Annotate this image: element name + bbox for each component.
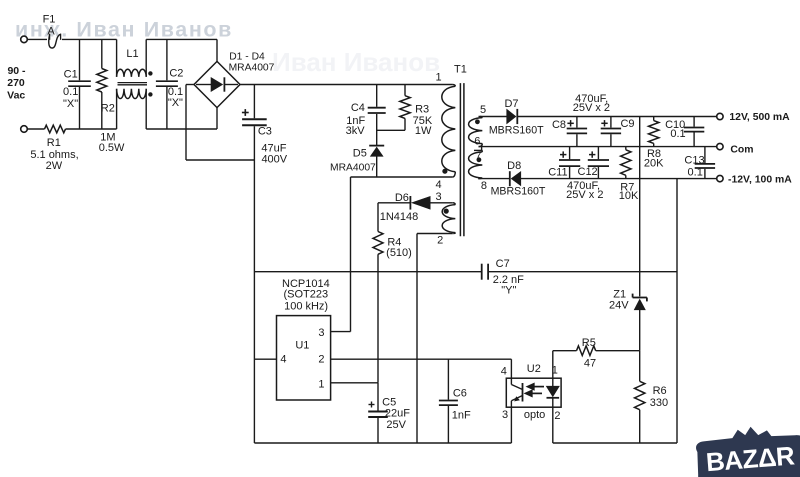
wire + rail	[240, 84, 453, 86]
capacitor C10	[684, 117, 704, 147]
wire pin1 rise	[552, 351, 554, 379]
resistor R4	[373, 203, 383, 383]
svg-text:R2: R2	[101, 103, 115, 115]
svg-text:10K: 10K	[619, 190, 639, 202]
label Com	[730, 144, 753, 155]
svg-text:22uF: 22uF	[385, 407, 410, 419]
svg-text:Z1: Z1	[613, 288, 626, 300]
svg-text:47: 47	[584, 358, 596, 370]
label D1 - D4	[229, 52, 265, 63]
svg-text:D8: D8	[507, 160, 521, 172]
label C2	[169, 67, 183, 79]
label C7	[496, 258, 510, 270]
plus sign C5	[369, 402, 375, 408]
label 470uF, 25V x 2 bottom	[566, 180, 603, 201]
wire	[553, 350, 577, 352]
svg-text:C9: C9	[620, 118, 634, 130]
label 0.1	[670, 128, 685, 140]
label L1	[126, 48, 138, 60]
opto arrows	[526, 384, 544, 396]
label -12V, 100 mA	[728, 174, 792, 185]
label C12	[578, 166, 598, 178]
svg-text:12V, 500 mA: 12V, 500 mA	[729, 112, 790, 123]
label opto	[524, 409, 545, 421]
label R4	[387, 237, 401, 249]
svg-text:20K: 20K	[644, 157, 664, 169]
label pin 3	[502, 409, 508, 421]
plus sign C9	[601, 120, 607, 126]
label pin 3	[435, 191, 441, 203]
label T1	[454, 64, 467, 76]
label C10	[665, 119, 685, 131]
wire	[596, 350, 640, 352]
capacitor C13	[695, 147, 715, 179]
label 470uF, 25V x 2 top	[573, 93, 610, 114]
label 3kV	[346, 125, 366, 137]
label 2.2 nF	[493, 274, 524, 286]
label pin 7	[475, 151, 481, 163]
label 0.1	[168, 86, 183, 98]
label "X"	[63, 98, 78, 110]
svg-text:MRA4007: MRA4007	[229, 63, 275, 74]
transformer T1 aux winding	[442, 203, 455, 234]
svg-text:3: 3	[435, 191, 441, 203]
svg-text:0.1: 0.1	[670, 128, 685, 140]
resistor R8	[649, 117, 659, 147]
svg-text:3: 3	[502, 409, 508, 421]
svg-text:Vac: Vac	[7, 90, 25, 102]
svg-text:2W: 2W	[46, 160, 63, 172]
diode D6	[378, 196, 453, 210]
wire	[146, 128, 217, 130]
svg-text:2: 2	[437, 235, 443, 247]
wire pin7 stub	[474, 147, 482, 151]
svg-text:1: 1	[435, 72, 441, 84]
wire	[146, 38, 217, 40]
svg-text:"X": "X"	[63, 98, 78, 110]
zener Z1	[633, 294, 647, 351]
wire bridge negative	[186, 85, 254, 161]
label R1	[47, 137, 61, 149]
watermark top	[15, 18, 233, 42]
svg-text:C1: C1	[64, 68, 78, 80]
label F1	[43, 14, 56, 26]
wire	[254, 271, 481, 273]
resistor R1	[45, 125, 66, 133]
label pin 4	[280, 354, 286, 366]
svg-text:C8: C8	[552, 119, 566, 131]
label pin 8	[481, 180, 487, 192]
wire bottom rail primary	[254, 442, 511, 444]
resistor R2	[97, 39, 107, 129]
label R8	[647, 148, 661, 160]
svg-text:F1: F1	[43, 14, 56, 26]
svg-text:2: 2	[318, 354, 324, 366]
wire pin1 stub	[331, 382, 378, 384]
label "Y"	[501, 285, 516, 297]
label pin 1	[318, 378, 324, 390]
diode D7	[507, 109, 518, 124]
inductor L1 bottom winding	[117, 89, 147, 129]
svg-text:8: 8	[481, 180, 487, 192]
capacitor C5	[368, 383, 388, 443]
label "X"	[168, 97, 183, 109]
plus sign C8	[567, 120, 573, 126]
svg-text:90 -: 90 -	[7, 65, 26, 77]
wire pin2 drop	[552, 407, 554, 443]
svg-text:MBRS160T: MBRS160T	[491, 185, 546, 197]
label 47uF	[261, 142, 286, 154]
terminal AC input bottom	[21, 126, 28, 133]
wire Com rail	[479, 146, 717, 148]
diode D8	[510, 171, 521, 186]
plus sign C3	[242, 109, 249, 116]
label 400V	[261, 153, 287, 165]
label R3	[415, 103, 429, 115]
label R6	[653, 385, 667, 397]
label pin 4	[435, 179, 441, 191]
label D7	[504, 98, 518, 110]
label U2	[527, 363, 541, 375]
phase dot L1 bottom	[148, 92, 152, 96]
wire	[66, 128, 117, 130]
svg-text:4: 4	[435, 179, 441, 191]
svg-text:C2: C2	[169, 67, 183, 79]
wire	[216, 108, 218, 129]
svg-text:0.5W: 0.5W	[99, 142, 125, 154]
svg-text:Com: Com	[730, 144, 753, 155]
wire	[417, 233, 453, 235]
label pin 3	[318, 327, 324, 339]
label pin 1	[552, 365, 558, 377]
label MBRS160T	[489, 125, 544, 137]
label C13	[684, 154, 704, 166]
svg-text:4: 4	[280, 354, 286, 366]
resistor R5	[577, 346, 596, 356]
label C4	[351, 102, 365, 114]
label 5.1 ohms,	[30, 149, 78, 161]
resistor R3	[400, 85, 410, 131]
label 1W	[415, 125, 432, 137]
phase dot secondary 5-6	[475, 119, 480, 124]
svg-text:C7: C7	[496, 258, 510, 270]
svg-text:Иван Иванов: Иван Иванов	[272, 47, 440, 77]
optocoupler U2 box	[506, 378, 561, 407]
capacitor C4	[368, 85, 386, 146]
wire right bus	[676, 179, 678, 443]
phase dot aux	[444, 209, 449, 214]
label MRA4007	[330, 162, 376, 173]
svg-text:24V: 24V	[609, 300, 629, 312]
label U1	[295, 339, 309, 351]
label pin 1	[435, 72, 441, 84]
svg-text:R1: R1	[47, 137, 61, 149]
svg-text:25V: 25V	[386, 419, 406, 431]
svg-text:4: 4	[501, 366, 507, 378]
svg-text:U1: U1	[295, 339, 309, 351]
diode D5	[369, 146, 384, 177]
wire +12V rail	[479, 116, 507, 118]
label (SOT223	[283, 288, 328, 300]
label pin 2	[554, 410, 560, 422]
wire bottom rail secondary	[553, 442, 677, 444]
wire Z1 drop	[639, 117, 641, 297]
capacitor C1	[68, 39, 91, 129]
wire pin3 stub	[331, 331, 351, 333]
svg-text:25V x 2: 25V x 2	[573, 102, 610, 114]
svg-text:0.1: 0.1	[688, 166, 703, 178]
svg-text:R6: R6	[653, 385, 667, 397]
label 1M	[100, 132, 115, 144]
inductor L1 core	[118, 83, 148, 85]
svg-text:MRA4007: MRA4007	[330, 162, 376, 173]
label Z1	[613, 288, 626, 300]
svg-text:D6: D6	[395, 192, 409, 204]
label pin 4	[501, 366, 507, 378]
svg-text:U2: U2	[527, 363, 541, 375]
svg-text:C6: C6	[453, 388, 467, 400]
label 10K	[619, 190, 639, 202]
logo BAZAR	[695, 422, 800, 477]
svg-text:3kV: 3kV	[346, 125, 366, 137]
svg-text:1N4148: 1N4148	[380, 211, 419, 223]
label pin 6	[474, 136, 480, 148]
svg-text:1W: 1W	[415, 125, 432, 137]
svg-text:MBRS160T: MBRS160T	[489, 125, 544, 137]
label MBRS160T	[491, 185, 546, 197]
transformer T1 core	[460, 83, 464, 236]
label 1nF	[346, 115, 365, 127]
svg-text:C11: C11	[548, 166, 567, 178]
transformer T1 secondary winding 7-8	[469, 150, 483, 178]
svg-text:0.1: 0.1	[63, 86, 78, 98]
label 2W	[46, 160, 63, 172]
label A	[47, 25, 55, 37]
plus sign C12	[589, 151, 595, 157]
wire left bus	[253, 160, 255, 443]
label 20K	[644, 157, 664, 169]
wire	[351, 176, 453, 178]
svg-text:R5: R5	[582, 337, 596, 349]
svg-text:400V: 400V	[261, 153, 287, 165]
svg-text:5: 5	[480, 104, 486, 116]
capacitor C3	[242, 85, 267, 161]
label 24V	[609, 300, 629, 312]
wire pin3 drop	[510, 407, 512, 443]
wire	[27, 38, 47, 40]
opto phototransistor	[511, 378, 522, 407]
label D8	[507, 160, 521, 172]
label MRA4007	[229, 63, 275, 74]
svg-text:100 kHz): 100 kHz)	[284, 300, 328, 312]
wire	[488, 271, 677, 273]
capacitor C11	[559, 147, 580, 179]
label R2	[101, 103, 115, 115]
svg-text:-12V, 100 mA: -12V, 100 mA	[728, 174, 792, 185]
bridge rectifier D1-D4	[194, 61, 240, 107]
label D5	[353, 147, 367, 159]
label R5	[582, 337, 596, 349]
transformer T1 primary winding	[442, 85, 456, 178]
svg-text:D5: D5	[353, 147, 367, 159]
IC U1 NCP1014	[277, 316, 331, 400]
wire	[377, 129, 405, 131]
label (510)	[386, 247, 412, 259]
wire -12V rail	[478, 178, 510, 180]
label pin 2	[437, 235, 443, 247]
phase dot primary	[442, 169, 447, 174]
label 330	[650, 397, 668, 409]
wire drain	[350, 177, 352, 332]
capacitor C8	[567, 117, 587, 147]
label 100 kHz)	[284, 300, 328, 312]
wire	[27, 128, 44, 130]
svg-text:1nF: 1nF	[452, 410, 471, 422]
label C1	[64, 68, 78, 80]
label 25V	[386, 419, 406, 431]
label C9	[620, 118, 634, 130]
svg-text:C3: C3	[258, 126, 272, 138]
resistor R7	[621, 147, 631, 179]
inductor L1 top winding	[117, 39, 147, 76]
svg-text:"X": "X"	[168, 97, 183, 109]
label C11	[548, 166, 567, 178]
wire	[639, 351, 641, 382]
svg-text:C12: C12	[578, 166, 598, 178]
svg-text:C13: C13	[684, 154, 704, 166]
terminal -12V	[717, 175, 723, 181]
capacitor C9	[601, 117, 621, 147]
svg-text:opto: opto	[524, 409, 545, 421]
svg-text:R3: R3	[415, 103, 429, 115]
label pin 2	[318, 354, 324, 366]
wire	[216, 39, 218, 61]
wire	[62, 38, 117, 40]
svg-text:(SOT223: (SOT223	[283, 288, 328, 300]
label 0.5W	[99, 142, 125, 154]
svg-text:1: 1	[318, 378, 324, 390]
label 0.1	[63, 86, 78, 98]
wire pin4 stub	[254, 358, 276, 360]
label 22uF	[385, 407, 410, 419]
capacitor C6	[439, 359, 458, 443]
capacitor C2	[156, 39, 178, 129]
svg-text:D1 - D4: D1 - D4	[229, 52, 265, 63]
svg-text:330: 330	[650, 397, 668, 409]
resistor R6	[635, 381, 645, 443]
terminal AC input top	[21, 36, 28, 43]
svg-text:270: 270	[7, 77, 25, 89]
label 1nF	[452, 410, 471, 422]
terminal Com	[717, 143, 723, 149]
label 12V, 500 mA	[729, 112, 790, 123]
capacitor C7	[482, 264, 488, 280]
terminal 12V	[717, 113, 723, 119]
label 47	[584, 358, 596, 370]
label C5	[382, 396, 396, 408]
label C8	[552, 119, 566, 131]
svg-text:A: A	[47, 25, 55, 37]
label NCP1014	[282, 278, 330, 290]
wire -12V rail	[521, 178, 717, 180]
svg-text:(510): (510)	[386, 247, 412, 259]
label pin 5	[480, 104, 486, 116]
wire aux return	[416, 234, 418, 444]
label C3	[258, 126, 272, 138]
transformer T1 secondary winding 5-6	[469, 117, 483, 147]
wire pin4 drop	[510, 359, 512, 378]
watermark faint	[272, 47, 440, 77]
svg-text:"Y": "Y"	[501, 285, 516, 297]
opto LED	[546, 378, 559, 407]
wire FB line	[331, 358, 512, 360]
svg-text:3: 3	[318, 327, 324, 339]
svg-text:25V x 2: 25V x 2	[566, 189, 603, 201]
svg-text:D7: D7	[504, 98, 518, 110]
svg-text:2: 2	[554, 410, 560, 422]
label C6	[453, 388, 467, 400]
svg-text:6: 6	[474, 136, 480, 148]
label 90-270 Vac	[7, 65, 26, 101]
phase dot secondary 7-8	[477, 157, 482, 162]
label 75K	[413, 115, 433, 127]
label R7	[620, 181, 634, 193]
wire +12V rail	[517, 116, 716, 118]
label 1N4148	[380, 211, 419, 223]
svg-text:T1: T1	[454, 64, 467, 76]
phase dot L1 top	[148, 71, 152, 75]
label D6	[395, 192, 409, 204]
capacitor C12	[588, 147, 609, 179]
svg-text:L1: L1	[126, 48, 138, 60]
label 0.1	[688, 166, 703, 178]
svg-text:C4: C4	[351, 102, 365, 114]
fuse F1	[49, 34, 61, 48]
plus sign C11	[560, 151, 566, 157]
